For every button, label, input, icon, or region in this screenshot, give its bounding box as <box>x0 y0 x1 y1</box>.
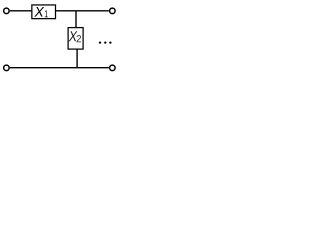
terminal bottom-right <box>110 65 116 71</box>
wire top-left <box>10 10 32 12</box>
ellipsis continuation dot 1 <box>99 41 101 43</box>
terminal top-right <box>110 8 116 14</box>
terminal bottom-left <box>4 65 9 71</box>
wire shunt lower <box>76 49 78 68</box>
label X2 <box>69 31 78 41</box>
box X1 (series impedance) <box>32 5 56 19</box>
terminal top-left <box>4 8 9 14</box>
ellipsis continuation dot 2 <box>104 41 106 43</box>
ellipsis continuation dot 3 <box>109 41 111 43</box>
wire shunt upper <box>75 11 77 28</box>
box X2 (shunt impedance) <box>68 28 83 49</box>
wire top-right <box>56 10 109 12</box>
wire bottom <box>10 67 109 69</box>
label X1 <box>34 7 44 17</box>
